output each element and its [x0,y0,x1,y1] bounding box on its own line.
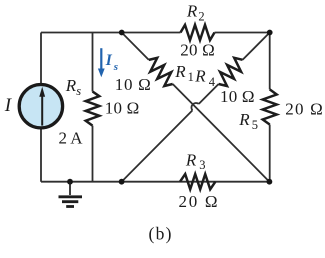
svg-text:1: 1 [188,70,194,84]
svg-text:5: 5 [252,118,258,132]
svg-text:R: R [185,151,197,170]
svg-text:R: R [65,76,77,95]
svg-text:4: 4 [209,75,216,89]
svg-text:s: s [76,84,81,98]
svg-text:2 A: 2 A [59,129,84,148]
svg-text:2: 2 [198,10,204,24]
svg-text:(b): (b) [149,224,172,244]
svg-text:R: R [194,67,206,86]
svg-text:R: R [174,62,186,81]
svg-text:s: s [113,61,118,73]
svg-text:R: R [186,1,198,20]
svg-text:10 Ω: 10 Ω [220,87,255,106]
svg-text:3: 3 [199,158,205,172]
svg-text:I: I [4,95,13,116]
svg-text:20 Ω: 20 Ω [285,100,323,119]
svg-text:I: I [105,52,113,69]
svg-text:20 Ω: 20 Ω [180,40,215,59]
svg-text:10 Ω: 10 Ω [105,99,140,118]
svg-text:R: R [238,110,250,129]
svg-text:20 Ω: 20 Ω [179,192,218,211]
svg-text:10 Ω: 10 Ω [115,75,151,94]
